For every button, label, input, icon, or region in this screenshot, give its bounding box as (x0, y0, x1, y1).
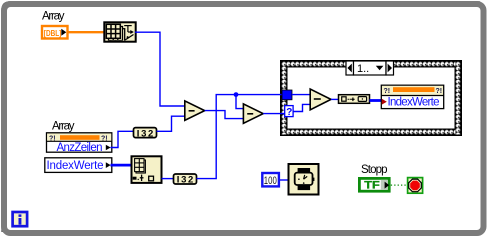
thick wire IndexWerte array to Index Array node (111, 164, 132, 167)
node Index Array (132, 156, 162, 183)
svg-text:100: 100 (264, 175, 277, 187)
svg-text:[DBL]: [DBL] (44, 28, 62, 38)
wire 100 to wait node (280, 179, 288, 181)
svg-text:?!: ?! (436, 88, 443, 95)
subtract node 3 (310, 89, 331, 110)
svg-text:1..: 1.. (357, 63, 369, 75)
stop button node (408, 178, 423, 194)
case selector label (346, 61, 394, 75)
node I32 conversion 2 (174, 174, 197, 186)
junction dot (234, 92, 239, 97)
svg-text:AnzZeilen: AnzZeilen (57, 142, 103, 154)
svg-text:IndexWerte: IndexWerte (388, 97, 440, 109)
svg-text:TF: TF (364, 180, 380, 192)
wire I32 2 up to tunnel (197, 95, 283, 179)
svg-text:Array: Array (52, 121, 75, 133)
svg-text:IndexWerte: IndexWerte (47, 160, 104, 172)
svg-text:Stopp: Stopp (361, 164, 388, 176)
svg-text:I32: I32 (137, 128, 154, 139)
tunnel blue square (282, 90, 292, 100)
numeric constant 100 (262, 173, 279, 187)
label Stopp (361, 164, 388, 176)
wire I32 1 to subtract 1 bottom input (157, 116, 185, 131)
svg-text:I32: I32 (177, 175, 194, 186)
wire subtract 1 to subtract 2 bottom input (205, 111, 244, 119)
node build array (339, 95, 370, 104)
wire selector tunnel inner to subtract 3 bottom input (293, 104, 310, 111)
svg-text:?: ? (286, 107, 292, 118)
case structure border (281, 61, 462, 136)
cluster control IndexWerte element (45, 158, 112, 173)
wire subtract 3 to build array node (331, 98, 339, 100)
label Array (cluster control) (52, 121, 75, 133)
array DBL control terminal (42, 26, 68, 39)
indicator IndexWerte with header (381, 85, 443, 109)
wire tunnel to subtract 3 top input (292, 94, 311, 96)
subtract node 2 (243, 104, 263, 123)
label Array (top control) (42, 11, 65, 23)
wire Index Array to I32 conversion 2 (162, 178, 174, 180)
wire junction to subtract 2 top input (236, 95, 244, 109)
svg-text:?!: ?! (384, 88, 391, 95)
VI info icon (13, 212, 28, 226)
orange wire DBL array to Array Size (67, 31, 104, 33)
wire subtract 2 to case selector tunnel (263, 113, 284, 115)
node I32 conversion 1 (134, 128, 157, 140)
boolean TF terminal Stopp (359, 178, 389, 191)
thick wire build array to IndexWerte indicator (370, 99, 383, 102)
cluster control AnzZeilen element with header (47, 133, 112, 154)
subtract node 1 (185, 101, 205, 121)
node Wait ms (wristwatch) (289, 164, 319, 195)
case selector tunnel (285, 106, 293, 118)
svg-text:?!: ?! (49, 135, 56, 142)
dotted green wire TF to stop button (391, 184, 407, 186)
wire AnzZeilen to I32 conversion 1 (111, 131, 134, 147)
wire Array Size to subtract 1 top input (135, 32, 185, 106)
svg-text:Array: Array (42, 11, 65, 23)
node Array Size (104, 22, 135, 42)
